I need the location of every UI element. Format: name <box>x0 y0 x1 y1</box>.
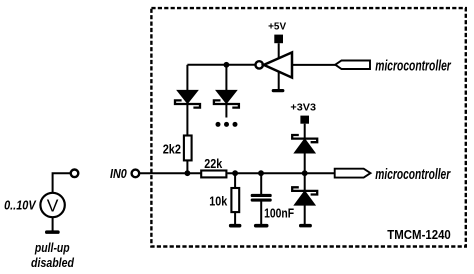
wire V1 top to terminal <box>53 173 71 192</box>
svg-text:10k: 10k <box>209 195 227 209</box>
inverter U1 triangle <box>264 52 292 77</box>
svg-text:V: V <box>47 196 59 216</box>
schottky diode D1 (down) <box>178 91 197 103</box>
wire D2 below <box>225 105 227 118</box>
wire D3 to IN0 line <box>304 153 306 174</box>
terminal (open circle) of V1 <box>71 170 79 178</box>
svg-text:0..10V: 0..10V <box>4 198 37 212</box>
svg-text:microcontroller: microcontroller <box>375 167 451 183</box>
wire V1 bottom to ground <box>52 217 54 231</box>
wire D4 to ground <box>304 205 306 225</box>
top wire D1/D2 to inverter bubble <box>187 64 255 66</box>
svg-text:2k2: 2k2 <box>163 143 181 157</box>
svg-text:+3V3: +3V3 <box>290 101 316 113</box>
ground under 10k <box>229 224 242 228</box>
wire 22k to lower tag <box>228 172 336 174</box>
svg-text:pull-up: pull-up <box>34 240 70 255</box>
ground under inverter <box>272 89 285 92</box>
svg-text:disabled: disabled <box>31 255 75 270</box>
capacitor C1 100nF <box>260 173 262 194</box>
wire inverter output to tag <box>292 64 336 66</box>
wire 10k to ground <box>234 212 236 224</box>
wire IN0 into module to 22k <box>139 172 201 174</box>
wire +3V3 to D3 <box>304 124 306 139</box>
module border TMCM-1240 (dashed) <box>151 8 465 246</box>
ground under 100nF <box>254 224 269 228</box>
signal tag to microcontroller (top, points left) <box>335 61 370 70</box>
ground under V1 <box>45 230 60 234</box>
more-diodes dots <box>216 122 221 127</box>
resistor R3 10k (vertical) <box>234 173 236 188</box>
schottky diode D4 (up, to GND) <box>304 173 306 191</box>
svg-text:microcontroller: microcontroller <box>375 59 451 75</box>
ground under D4 <box>299 224 312 228</box>
node IN0 terminal (open circle) <box>132 170 140 178</box>
svg-text:TMCM-1240: TMCM-1240 <box>387 228 451 242</box>
junction at 2k2 / IN0 line <box>185 170 191 176</box>
+3V3 supply square <box>300 116 309 124</box>
wire inverter to ground <box>278 72 280 90</box>
+5V supply square <box>274 35 283 44</box>
inverter U1 bubble <box>256 61 263 68</box>
svg-text:+5V: +5V <box>268 20 286 32</box>
voltage source V1 (0..10V) <box>40 193 64 217</box>
wire 100nF to ground <box>260 201 262 225</box>
junction diode clamp branch <box>302 170 308 176</box>
junction 10k branch <box>232 170 238 176</box>
resistor R2 22k (horizontal) <box>201 171 226 178</box>
wire D1 to 2k2 <box>186 105 188 136</box>
wire D1 up to top line <box>186 65 188 91</box>
resistor R1 2k2 (vertical) <box>184 136 192 161</box>
wire 2k2 to IN0 line <box>186 160 188 173</box>
schottky diode D2 (down) <box>217 91 236 103</box>
svg-text:22k: 22k <box>204 157 222 171</box>
svg-text:100nF: 100nF <box>264 206 294 220</box>
junction D2 top <box>224 62 230 68</box>
schottky diode D3 (up, to +3V3) <box>292 135 317 142</box>
svg-text:IN0: IN0 <box>110 167 127 181</box>
wire +5V to inverter <box>278 43 280 58</box>
junction 100nF branch <box>258 170 264 176</box>
wire D2 up to top line <box>225 65 227 91</box>
signal tag to microcontroller (bottom, points right) <box>335 169 371 178</box>
